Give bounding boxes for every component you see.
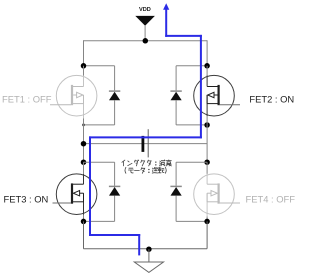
wire D2 cathode vertical bbox=[175, 66, 177, 91]
wire FET3 gate lead bbox=[53, 202, 72, 204]
transistor FET1 (OFF) bbox=[56, 75, 97, 116]
wire FET1 source lead bbox=[83, 119, 85, 125]
wire FET4 drain lead bbox=[206, 162, 208, 174]
node right source junction bbox=[204, 219, 210, 225]
wire FET4 channel drain segment bbox=[206, 174, 208, 184]
diode D2 bbox=[170, 91, 181, 100]
wire FET4 source lead bbox=[206, 217, 208, 222]
node upper right junction bbox=[204, 63, 210, 69]
label inductor decay text line1 bbox=[122, 160, 171, 166]
wire FET1 drain lead bbox=[83, 66, 85, 76]
wire blue current path left vertical through FET3 bbox=[89, 137, 91, 235]
wire FET2 source lead bbox=[206, 116, 208, 125]
wire FET1 channel drain segment bbox=[83, 76, 85, 87]
node left anode junction small bbox=[82, 124, 85, 127]
wire blue current path middle horizontal bbox=[90, 136, 201, 138]
svg-text:VDD: VDD bbox=[139, 7, 151, 13]
wire D3 anode vertical bbox=[114, 196, 116, 222]
wire FET2 channel source segment bbox=[206, 95, 208, 116]
node upper left junction bbox=[81, 63, 87, 69]
svg-text:FET2 : ON: FET2 : ON bbox=[249, 94, 294, 105]
wire lower right node to diode D4 bbox=[176, 161, 207, 163]
node right lower junction bbox=[204, 159, 210, 165]
wire FET2 channel drain segment bbox=[206, 76, 208, 87]
node left middle junction bbox=[81, 141, 87, 147]
power symbol VDD triangle bbox=[135, 16, 155, 41]
wire right column mid segment bbox=[206, 125, 208, 162]
wire FET3 drain lead bbox=[83, 162, 85, 174]
node left lower junction bbox=[81, 159, 87, 165]
wire blue current path end vertical to ground rail bbox=[138, 235, 140, 254]
wire upper left node to diode D1 bbox=[84, 65, 115, 67]
wire blue current path top horizontal bbox=[166, 35, 201, 37]
wire FET4 channel source segment bbox=[206, 193, 208, 216]
transistor FET3 (ON) bbox=[56, 174, 97, 215]
wire FET1 gate lead bbox=[50, 104, 71, 106]
inductor motor symbol bbox=[142, 129, 149, 157]
node ground tap junction bbox=[146, 246, 152, 252]
wire D1 anode vertical bbox=[114, 100, 116, 125]
wire FET2 drain lead bbox=[206, 66, 208, 76]
wire blue current path bottom horizontal bbox=[90, 234, 139, 236]
wire bottom ground rail bbox=[84, 248, 208, 250]
label motor reverse text line2 bbox=[125, 167, 166, 173]
transistor FET4 (OFF) bbox=[194, 174, 235, 215]
wire FET4 gate lead bbox=[220, 202, 240, 204]
wire right bottom vertical bbox=[206, 221, 208, 248]
wire top power rail bbox=[84, 40, 208, 42]
diode D1 bbox=[109, 91, 120, 100]
wire FET3 channel source segment bbox=[83, 193, 85, 214]
wire upper right node to diode D2 bbox=[176, 65, 207, 67]
node VDD tap junction bbox=[143, 38, 149, 44]
diode D4 bbox=[170, 186, 181, 195]
wire right bridge top vertical bbox=[206, 40, 208, 66]
svg-text:FET3 : ON: FET3 : ON bbox=[4, 193, 49, 204]
wire D3 anode to left column bbox=[84, 220, 115, 222]
transistor FET2 (ON) bbox=[194, 75, 235, 116]
node left source junction bbox=[81, 219, 87, 225]
wire left bridge top vertical bbox=[83, 40, 85, 66]
svg-text:FET1 : OFF: FET1 : OFF bbox=[2, 94, 52, 105]
wire FET3 channel drain segment bbox=[83, 174, 85, 184]
wire D3 cathode vertical bbox=[114, 162, 116, 186]
svg-text:FET4 : OFF: FET4 : OFF bbox=[246, 193, 296, 204]
wire FET2 gate lead bbox=[220, 104, 240, 106]
wire D2 anode to right column bbox=[176, 124, 207, 126]
wire D2 anode vertical bbox=[175, 100, 177, 125]
wire motor bridge middle bbox=[84, 143, 208, 145]
ground symbol bbox=[134, 249, 163, 272]
diode D3 bbox=[109, 186, 120, 195]
wire blue current path right vertical through FET2 bbox=[200, 36, 202, 137]
wire left bottom vertical bbox=[83, 221, 85, 248]
wire FET1 channel source segment bbox=[83, 95, 85, 119]
wire left column mid segment bbox=[83, 125, 85, 162]
wire D1 anode to left column bbox=[84, 124, 115, 126]
wire lower left node to diode D3 bbox=[84, 161, 115, 163]
node right anode junction bbox=[204, 122, 210, 128]
wire blue current path vertical to VDD bbox=[165, 9, 167, 36]
wire blue current path arrowhead bbox=[163, 3, 169, 10]
wire D4 anode vertical bbox=[175, 196, 177, 222]
wire D4 cathode vertical bbox=[175, 162, 177, 186]
wire D4 anode to right column bbox=[176, 220, 207, 222]
wire FET3 source lead bbox=[83, 215, 85, 222]
wire D1 cathode vertical bbox=[114, 66, 116, 91]
